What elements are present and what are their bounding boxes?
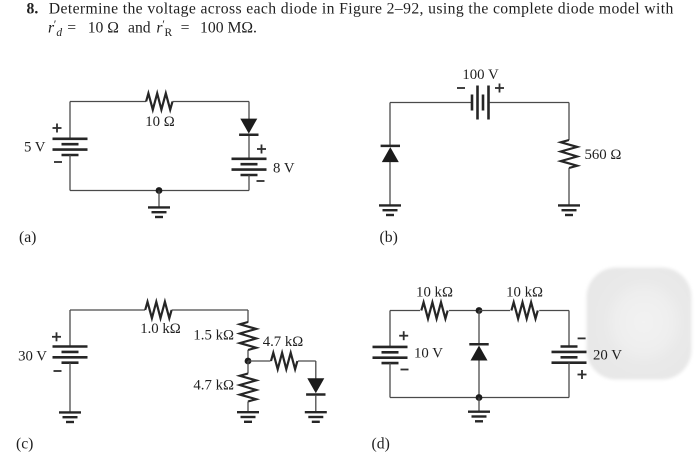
wire d top-right bbox=[539, 310, 569, 312]
wire d top-mid1 bbox=[449, 310, 479, 312]
wire b left-upper bbox=[389, 103, 391, 146]
resistor R 1.5kΩ (c) bbox=[240, 322, 256, 350]
wire a top-right bbox=[173, 101, 250, 103]
svg-text:10: 10 bbox=[88, 20, 104, 37]
svg-text:10 Ω: 10 Ω bbox=[145, 114, 175, 130]
resistor R 4.7kΩ vertical (c) bbox=[240, 374, 256, 402]
battery V2 8V (a) bbox=[232, 159, 267, 175]
wire d left-upper bbox=[389, 311, 391, 348]
diode D1 (a) bbox=[239, 119, 258, 135]
wire a right-mid bbox=[248, 136, 250, 159]
wire a left-lower bbox=[69, 155, 71, 191]
wire b right-lower bbox=[568, 168, 570, 206]
resistor R 4.7kΩ horizontal (c) bbox=[271, 353, 297, 369]
wire a ground stub bbox=[158, 191, 160, 208]
minus sign 8V battery bbox=[257, 180, 265, 182]
svg-text:=: = bbox=[67, 20, 76, 37]
wire d right-upper bbox=[568, 311, 570, 348]
wire d top-mid2 bbox=[479, 310, 510, 312]
resistor R 1.0kΩ (c) bbox=[145, 302, 171, 318]
wire a bottom bbox=[70, 190, 249, 192]
node top junction (d) bbox=[476, 307, 483, 314]
svg-text:(c): (c) bbox=[16, 436, 33, 453]
plus sign 8V battery bbox=[257, 145, 266, 154]
wire d diode-lower bbox=[478, 361, 480, 398]
resistor R 10Ω (a) bbox=[146, 93, 172, 109]
minus sign 10V battery bbox=[401, 369, 409, 371]
wire d left-lower bbox=[389, 363, 391, 398]
diode D2 (b) bbox=[381, 146, 400, 162]
svg-text:100 V: 100 V bbox=[462, 67, 499, 83]
svg-text:4.7 kΩ: 4.7 kΩ bbox=[193, 378, 234, 394]
svg-text:(d): (d) bbox=[372, 436, 390, 453]
minus sign 30V battery bbox=[54, 370, 62, 372]
resistor R 10kΩ right (d) bbox=[511, 302, 537, 318]
battery V3 100V (b) bbox=[472, 86, 489, 120]
wire c branch-lower bbox=[247, 361, 249, 374]
battery V6 20V (d) bbox=[552, 347, 587, 363]
wire c top-right bbox=[172, 309, 248, 311]
wire b right-upper bbox=[568, 103, 570, 141]
battery V1 5V (a) bbox=[53, 139, 88, 155]
svg-text:100 MΩ.: 100 MΩ. bbox=[200, 20, 257, 37]
watermark blob bbox=[587, 268, 692, 380]
svg-text:Determine the voltage across e: Determine the voltage across each diode … bbox=[49, 1, 674, 18]
node junction (a) bbox=[156, 187, 163, 194]
wire c top-left bbox=[70, 309, 145, 311]
wire b top-right bbox=[490, 102, 570, 104]
ground b-right bbox=[558, 205, 580, 215]
ground c-right bbox=[305, 412, 327, 422]
plus sign 5V battery bbox=[53, 124, 62, 133]
svg-text:20 V: 20 V bbox=[593, 348, 622, 364]
wire c branch-mid bbox=[247, 350, 249, 361]
problem text line 2 bbox=[48, 17, 257, 39]
minus sign 100V battery bbox=[457, 87, 465, 89]
wire d diode-upper bbox=[478, 311, 480, 345]
wire b left-lower bbox=[389, 162, 391, 206]
svg-text:560 Ω: 560 Ω bbox=[585, 147, 622, 163]
svg-text:(b): (b) bbox=[380, 229, 398, 246]
wire c diode-upper bbox=[315, 361, 317, 379]
node bottom junction (d) bbox=[476, 394, 483, 401]
plus sign 20V battery bbox=[578, 370, 587, 379]
svg-text:10 kΩ: 10 kΩ bbox=[506, 285, 543, 301]
wire d bottom bbox=[390, 397, 569, 399]
battery V4 30V (c) bbox=[53, 347, 88, 363]
resistor R 560Ω (b) bbox=[561, 140, 577, 168]
diode D4 (d) bbox=[469, 344, 488, 360]
svg-text:4.7 kΩ: 4.7 kΩ bbox=[263, 334, 304, 350]
wire c left-lower bbox=[69, 363, 71, 412]
wire c left-upper bbox=[69, 310, 71, 347]
wire c diode-lower bbox=[315, 396, 317, 413]
svg-text:d: d bbox=[56, 27, 62, 39]
ground (d) bbox=[468, 412, 490, 422]
wire c node-right bbox=[248, 360, 271, 362]
ground c-middle bbox=[237, 412, 259, 422]
svg-text:(a): (a) bbox=[19, 229, 36, 246]
svg-text:8 V: 8 V bbox=[273, 161, 295, 177]
battery V5 10V (d) bbox=[373, 347, 408, 363]
svg-text:30 V: 30 V bbox=[18, 349, 47, 365]
wire a right-upper bbox=[248, 102, 250, 120]
node junction (c) bbox=[245, 358, 252, 365]
resistor R 10kΩ left (d) bbox=[421, 302, 447, 318]
svg-text:10 V: 10 V bbox=[414, 346, 443, 362]
ground c-left bbox=[59, 412, 81, 422]
wire d right-lower bbox=[568, 363, 570, 398]
minus sign 20V battery bbox=[578, 337, 586, 339]
svg-text:and: and bbox=[128, 20, 151, 37]
svg-text:=: = bbox=[181, 20, 190, 37]
svg-text:1.5 kΩ: 1.5 kΩ bbox=[193, 328, 234, 344]
plus sign 100V battery bbox=[495, 84, 504, 93]
minus sign 5V battery bbox=[54, 161, 62, 163]
plus sign 30V battery bbox=[52, 332, 61, 341]
wire c to diode bbox=[298, 360, 316, 362]
wire d top-left bbox=[390, 310, 420, 312]
wire c branch-upper bbox=[247, 310, 249, 323]
svg-text:8.: 8. bbox=[27, 1, 39, 18]
wire b top-left bbox=[390, 102, 471, 104]
wire a left-upper bbox=[69, 102, 71, 140]
svg-text:R: R bbox=[165, 27, 173, 39]
svg-text:Ω: Ω bbox=[107, 20, 119, 37]
ground b-left bbox=[379, 205, 401, 215]
svg-text:10 kΩ: 10 kΩ bbox=[416, 285, 453, 301]
wire d ground stub bbox=[478, 398, 480, 412]
diode D3 (c) bbox=[306, 378, 325, 394]
wire c branch-bottom bbox=[247, 402, 249, 413]
wire a top-left bbox=[70, 101, 146, 103]
svg-text:5 V: 5 V bbox=[24, 140, 46, 156]
wire a right-lower bbox=[248, 175, 250, 191]
ground (a) bbox=[148, 207, 170, 217]
plus sign 10V battery bbox=[399, 331, 408, 340]
svg-text:1.0 kΩ: 1.0 kΩ bbox=[140, 321, 181, 337]
